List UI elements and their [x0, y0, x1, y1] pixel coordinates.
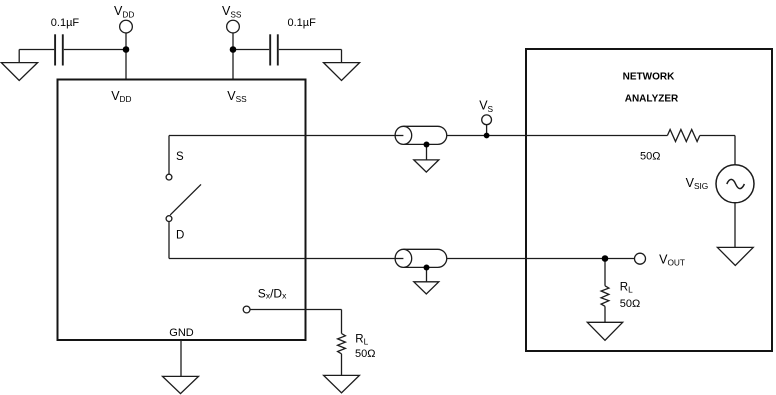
svg-text:0.1µF: 0.1µF: [288, 17, 317, 29]
svg-text:GND: GND: [169, 327, 194, 339]
svg-text:NETWORK: NETWORK: [623, 72, 675, 83]
svg-text:S: S: [176, 151, 184, 163]
svg-text:ANALYZER: ANALYZER: [625, 94, 679, 105]
svg-text:50Ω: 50Ω: [640, 151, 660, 163]
svg-text:50Ω: 50Ω: [355, 348, 375, 360]
svg-text:D: D: [176, 229, 184, 241]
svg-text:0.1µF: 0.1µF: [51, 17, 80, 29]
svg-text:50Ω: 50Ω: [620, 298, 640, 310]
